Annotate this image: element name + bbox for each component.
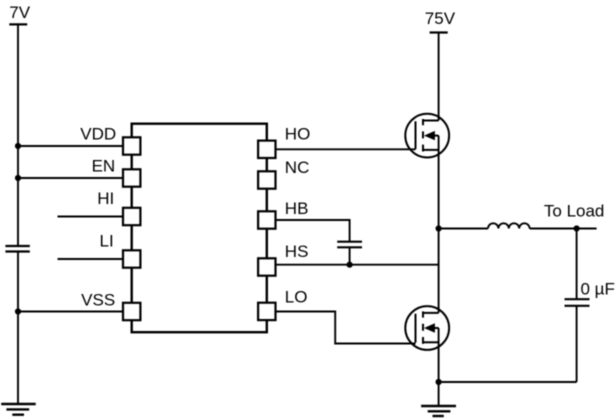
svg-text:HS: HS bbox=[285, 242, 309, 261]
svg-text:HI: HI bbox=[97, 189, 114, 208]
svg-text:VDD: VDD bbox=[80, 125, 116, 144]
svg-text:LI: LI bbox=[100, 231, 114, 250]
svg-text:0 µF: 0 µF bbox=[581, 280, 615, 299]
svg-text:VSS: VSS bbox=[81, 291, 115, 310]
svg-text:7V: 7V bbox=[9, 3, 30, 22]
svg-text:To Load: To Load bbox=[544, 202, 605, 221]
svg-text:LO: LO bbox=[285, 288, 308, 307]
svg-text:HO: HO bbox=[285, 125, 311, 144]
svg-text:75V: 75V bbox=[425, 9, 456, 28]
svg-text:NC: NC bbox=[285, 158, 310, 177]
svg-text:EN: EN bbox=[92, 157, 116, 176]
svg-text:HB: HB bbox=[285, 199, 309, 218]
